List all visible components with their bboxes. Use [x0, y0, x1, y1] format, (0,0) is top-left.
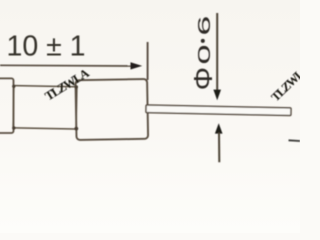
svg-text:Φ: Φ — [188, 67, 217, 90]
junction dot bottom-right of neck — [74, 127, 78, 131]
arrowhead down to wire — [213, 90, 221, 101]
arrowhead up to wire — [215, 123, 223, 133]
junction dot top-right of neck — [75, 85, 78, 88]
svg-text:10 ± 1: 10 ± 1 — [7, 31, 86, 63]
leader dash at right edge — [289, 139, 301, 142]
arrowhead right of dimension line — [131, 62, 143, 69]
diameter dimension line lower — [218, 133, 220, 163]
dimension line (10±1) — [0, 64, 136, 67]
body left end cap — [0, 78, 14, 133]
svg-text:6: 6 — [194, 16, 214, 36]
decimal point of 0.6 label — [201, 39, 205, 43]
junction dot top-left of neck — [12, 85, 15, 88]
body middle neck — [13, 86, 77, 129]
extension line at right end of 10±1 — [147, 42, 149, 80]
lead wire — [146, 105, 291, 116]
junction dot bottom-left of neck — [12, 126, 15, 129]
body right end cap — [75, 79, 148, 140]
svg-text:0: 0 — [194, 45, 214, 65]
diameter dimension line upper — [216, 13, 218, 91]
